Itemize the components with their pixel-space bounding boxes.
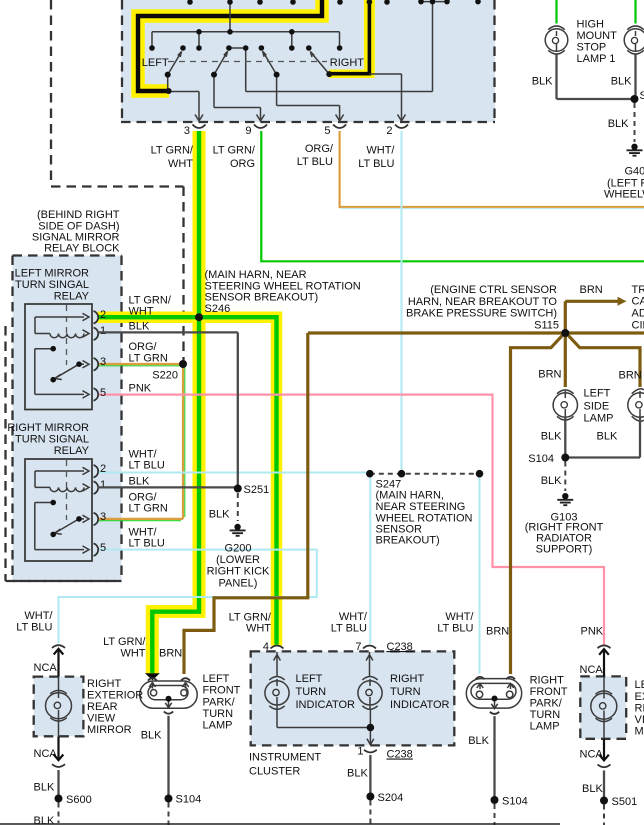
svg-text:LAMP: LAMP bbox=[530, 721, 560, 733]
svg-text:BLK: BLK bbox=[582, 783, 603, 795]
svg-text:PARK/: PARK/ bbox=[203, 696, 236, 708]
svg-text:LT BLU: LT BLU bbox=[358, 158, 394, 170]
svg-text:WHT/: WHT/ bbox=[366, 145, 395, 157]
svg-text:HARN, NEAR BREAKOUT TO: HARN, NEAR BREAKOUT TO bbox=[408, 296, 558, 308]
svg-text:TURN: TURN bbox=[390, 686, 421, 698]
svg-text:WHT: WHT bbox=[120, 648, 145, 660]
svg-text:TRANS: TRANS bbox=[632, 284, 644, 296]
svg-text:LT BLU: LT BLU bbox=[331, 623, 367, 635]
svg-text:S104: S104 bbox=[176, 794, 202, 806]
svg-text:RIGHT: RIGHT bbox=[87, 678, 122, 690]
svg-text:VIEW: VIEW bbox=[635, 714, 644, 726]
svg-text:NCA: NCA bbox=[34, 662, 58, 674]
svg-text:S204: S204 bbox=[378, 792, 404, 804]
svg-text:1: 1 bbox=[357, 746, 363, 758]
svg-text:LT GRN: LT GRN bbox=[129, 503, 168, 515]
svg-text:LT BLU: LT BLU bbox=[297, 156, 333, 168]
svg-text:LEFT: LEFT bbox=[142, 57, 169, 69]
svg-text:PARK/: PARK/ bbox=[530, 698, 563, 710]
svg-text:LAMP 1: LAMP 1 bbox=[577, 53, 616, 65]
svg-text:BREAKOUT): BREAKOUT) bbox=[376, 535, 440, 547]
svg-text:BLK: BLK bbox=[468, 735, 489, 747]
svg-text:REAR: REAR bbox=[635, 703, 644, 715]
svg-text:SIDE: SIDE bbox=[584, 401, 610, 413]
svg-text:SENSOR BREAKOUT): SENSOR BREAKOUT) bbox=[205, 292, 319, 304]
svg-text:3: 3 bbox=[100, 356, 106, 368]
svg-text:LT GRN: LT GRN bbox=[129, 353, 168, 365]
svg-text:BRAKE PRESSURE SWITCH): BRAKE PRESSURE SWITCH) bbox=[406, 308, 557, 320]
svg-text:S251: S251 bbox=[244, 484, 270, 496]
svg-text:RIGHT: RIGHT bbox=[330, 57, 365, 69]
svg-text:STOP: STOP bbox=[577, 42, 607, 54]
svg-text:(ENGINE CTRL SENSOR: (ENGINE CTRL SENSOR bbox=[430, 284, 557, 296]
svg-text:ORG: ORG bbox=[230, 158, 255, 170]
svg-text:WHT: WHT bbox=[129, 306, 154, 318]
svg-text:(MAIN HARN, NEAR: (MAIN HARN, NEAR bbox=[205, 269, 307, 281]
svg-text:LAMP: LAMP bbox=[203, 720, 233, 732]
svg-text:WHT: WHT bbox=[246, 623, 271, 635]
svg-text:BRN: BRN bbox=[538, 369, 561, 381]
svg-text:LT GRN/: LT GRN/ bbox=[103, 636, 146, 648]
svg-text:S104: S104 bbox=[528, 453, 554, 465]
svg-text:CIRCUITS: CIRCUITS bbox=[632, 320, 644, 332]
svg-text:MIRROR: MIRROR bbox=[87, 724, 132, 736]
svg-text:NEAR STEERING: NEAR STEERING bbox=[376, 501, 466, 513]
svg-text:S220: S220 bbox=[152, 370, 178, 382]
svg-text:5: 5 bbox=[100, 387, 106, 399]
svg-text:LAMP: LAMP bbox=[584, 413, 614, 425]
svg-text:INDICATOR: INDICATOR bbox=[296, 699, 356, 711]
svg-text:9: 9 bbox=[245, 125, 251, 137]
svg-text:BLK: BLK bbox=[597, 431, 618, 443]
svg-text:ADAPTER: ADAPTER bbox=[632, 308, 644, 320]
svg-text:PNK: PNK bbox=[129, 383, 152, 395]
svg-text:LEFT: LEFT bbox=[296, 673, 323, 685]
svg-text:2: 2 bbox=[100, 309, 106, 321]
svg-text:REAR: REAR bbox=[87, 701, 118, 713]
svg-text:SUPPORT): SUPPORT) bbox=[536, 544, 593, 556]
svg-text:LT BLU: LT BLU bbox=[16, 622, 52, 634]
svg-text:1: 1 bbox=[100, 325, 106, 337]
svg-text:LEFT: LEFT bbox=[584, 388, 611, 400]
svg-text:S4: S4 bbox=[640, 90, 644, 102]
svg-text:2: 2 bbox=[386, 125, 392, 137]
svg-text:BLK: BLK bbox=[608, 118, 629, 130]
svg-text:BRN: BRN bbox=[486, 626, 509, 638]
svg-text:2: 2 bbox=[100, 463, 106, 475]
svg-text:RIGHT: RIGHT bbox=[390, 673, 425, 685]
svg-text:BRN: BRN bbox=[619, 370, 642, 382]
svg-text:RIGHT MIRROR: RIGHT MIRROR bbox=[7, 422, 89, 434]
svg-text:S104: S104 bbox=[502, 796, 528, 808]
svg-text:WHEELWELL): WHEELWELL) bbox=[604, 189, 644, 201]
svg-text:RIGHT: RIGHT bbox=[530, 675, 565, 687]
svg-text:BRN: BRN bbox=[159, 648, 182, 660]
svg-text:LEFT: LEFT bbox=[635, 679, 644, 691]
svg-text:TURN: TURN bbox=[530, 709, 561, 721]
svg-text:CASE: CASE bbox=[632, 296, 644, 308]
svg-text:BLK: BLK bbox=[129, 321, 150, 333]
svg-text:C238: C238 bbox=[387, 641, 413, 653]
svg-text:EXTERIOR: EXTERIOR bbox=[87, 690, 143, 702]
svg-text:VIEW: VIEW bbox=[87, 713, 116, 725]
svg-text:FRONT: FRONT bbox=[203, 685, 241, 697]
svg-text:FRONT: FRONT bbox=[530, 686, 568, 698]
svg-text:MIRROR: MIRROR bbox=[635, 726, 644, 738]
svg-text:G401: G401 bbox=[625, 166, 644, 178]
svg-text:BLK: BLK bbox=[34, 782, 55, 794]
svg-text:7: 7 bbox=[355, 641, 361, 653]
svg-text:LEFT MIRROR: LEFT MIRROR bbox=[15, 268, 89, 280]
svg-text:S246: S246 bbox=[205, 303, 231, 315]
svg-text:INDICATOR: INDICATOR bbox=[390, 699, 450, 711]
svg-text:NCA: NCA bbox=[34, 748, 58, 760]
svg-text:S501: S501 bbox=[612, 796, 638, 808]
svg-text:NCA: NCA bbox=[580, 664, 604, 676]
svg-text:PNK: PNK bbox=[581, 626, 604, 638]
svg-text:BLK: BLK bbox=[532, 76, 553, 88]
svg-text:INSTRUMENT: INSTRUMENT bbox=[249, 752, 321, 764]
svg-text:4: 4 bbox=[263, 641, 269, 653]
svg-text:5: 5 bbox=[100, 542, 106, 554]
svg-text:LT BLU: LT BLU bbox=[437, 623, 473, 635]
svg-text:3: 3 bbox=[100, 511, 106, 523]
svg-text:ORG/: ORG/ bbox=[305, 143, 334, 155]
svg-text:HIGH: HIGH bbox=[577, 19, 605, 31]
svg-text:RELAY BLOCK: RELAY BLOCK bbox=[44, 243, 120, 255]
svg-text:WHT/: WHT/ bbox=[339, 611, 368, 623]
svg-text:WHT/: WHT/ bbox=[445, 611, 474, 623]
svg-text:BLK: BLK bbox=[541, 431, 562, 443]
svg-text:WHT/: WHT/ bbox=[24, 610, 53, 622]
svg-text:(MAIN HARN,: (MAIN HARN, bbox=[376, 490, 444, 502]
svg-text:RELAY: RELAY bbox=[54, 445, 90, 457]
svg-text:TURN: TURN bbox=[296, 686, 327, 698]
svg-text:G200: G200 bbox=[225, 543, 252, 555]
svg-text:S115: S115 bbox=[534, 320, 559, 332]
svg-text:C238: C238 bbox=[387, 749, 413, 761]
svg-text:LEFT: LEFT bbox=[203, 673, 230, 685]
svg-text:TURN SIGNAL: TURN SIGNAL bbox=[15, 434, 89, 446]
svg-text:LT GRN/: LT GRN/ bbox=[151, 145, 194, 157]
svg-text:ORG/: ORG/ bbox=[129, 341, 158, 353]
svg-text:NCA: NCA bbox=[580, 749, 604, 761]
svg-text:LT GRN/: LT GRN/ bbox=[213, 145, 256, 157]
svg-text:MOUNT: MOUNT bbox=[577, 30, 618, 42]
svg-text:(BEHIND RIGHT: (BEHIND RIGHT bbox=[37, 209, 120, 221]
svg-text:(LOWER: (LOWER bbox=[216, 554, 260, 566]
svg-text:5: 5 bbox=[324, 125, 330, 137]
svg-text:RELAY: RELAY bbox=[54, 291, 90, 303]
svg-text:BLK: BLK bbox=[611, 76, 632, 88]
svg-text:TURN: TURN bbox=[203, 708, 234, 720]
svg-text:BLK: BLK bbox=[141, 730, 162, 742]
svg-text:BLK: BLK bbox=[129, 476, 150, 488]
svg-text:TURN SINGAL: TURN SINGAL bbox=[15, 279, 89, 291]
svg-text:PANEL): PANEL) bbox=[219, 578, 258, 590]
svg-text:EXTERIOR: EXTERIOR bbox=[635, 691, 644, 703]
svg-text:BLK: BLK bbox=[347, 768, 368, 780]
svg-text:BRN: BRN bbox=[580, 284, 603, 296]
svg-text:RIGHT KICK: RIGHT KICK bbox=[207, 566, 270, 578]
svg-text:LT BLU: LT BLU bbox=[129, 460, 165, 472]
svg-text:WHT: WHT bbox=[168, 158, 193, 170]
svg-text:3: 3 bbox=[184, 125, 190, 137]
svg-text:CLUSTER: CLUSTER bbox=[249, 766, 300, 778]
svg-text:LT BLU: LT BLU bbox=[129, 538, 165, 550]
svg-text:BLK: BLK bbox=[209, 509, 230, 521]
svg-text:BLK: BLK bbox=[541, 475, 562, 487]
svg-text:1: 1 bbox=[100, 479, 106, 491]
svg-text:S600: S600 bbox=[66, 794, 92, 806]
